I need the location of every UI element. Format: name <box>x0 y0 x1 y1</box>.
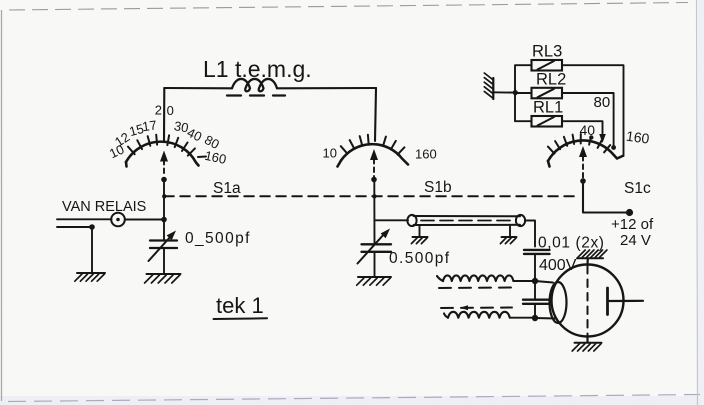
ground coax right <box>502 236 517 238</box>
S1a wiper dashed arrow <box>163 160 165 177</box>
tube dashed membrane <box>587 266 589 335</box>
svg-text:0,01 (2x): 0,01 (2x) <box>538 235 605 252</box>
S1c wiper dashed arrow <box>582 156 584 178</box>
wire chassis to bus <box>493 91 515 93</box>
wire S1a top to rail <box>163 88 165 141</box>
wire coax shield right to ground <box>509 226 511 237</box>
wire tube bottom to ground <box>586 337 588 343</box>
border frame bottom line <box>8 395 700 402</box>
svg-text:160: 160 <box>625 128 651 147</box>
node input ground junction <box>89 224 95 230</box>
S1a wiper node dot <box>161 177 167 183</box>
wire node to C1 <box>163 220 165 241</box>
wire dashed gang line S1a-S1b-S1c <box>164 195 580 197</box>
wire electrode output <box>609 300 643 302</box>
svg-text:S1a: S1a <box>213 180 241 197</box>
S1c 40 tap dot <box>589 135 593 139</box>
wire input top <box>57 218 112 220</box>
svg-text:S1b: S1b <box>424 179 452 196</box>
svg-text:40: 40 <box>580 122 596 138</box>
svg-text:24 V: 24 V <box>620 232 651 249</box>
wire top rail right <box>277 87 376 89</box>
inductor bottom coil <box>444 314 448 318</box>
svg-text:400V: 400V <box>539 257 577 274</box>
switch S1c ticks <box>548 134 610 154</box>
S1c wiper node dot <box>580 178 586 184</box>
svg-text:80: 80 <box>594 94 611 111</box>
svg-text:+12 of: +12 of <box>611 216 654 233</box>
wire node A to tube <box>535 281 553 283</box>
svg-text:2: 2 <box>155 103 162 118</box>
switch S1c arc <box>548 140 623 161</box>
wire C2 to ground <box>374 252 376 276</box>
node relay bus junction <box>513 90 518 95</box>
ground under tube <box>575 342 602 344</box>
wire connector to node <box>125 219 164 221</box>
coax cable body <box>414 215 521 217</box>
svg-text:0_500pf: 0_500pf <box>185 230 251 247</box>
node S1a rail junction <box>162 194 166 198</box>
wire C4 to node B <box>534 304 536 318</box>
border frame left line <box>1 10 3 401</box>
wire S1c wiper to supply <box>583 181 628 213</box>
wire coax to capacitor stack <box>525 221 535 247</box>
wire C1 to ground <box>163 248 165 273</box>
ground under C1 <box>147 273 181 275</box>
wire S1a wiper down <box>163 180 165 220</box>
capacitor C3 0,01 top <box>524 249 550 251</box>
switch S1b arc <box>341 144 408 164</box>
wire input bottom <box>57 226 92 228</box>
coax cable right end <box>516 215 525 226</box>
wire RL3 to 160 tap <box>562 65 624 156</box>
chassis ground above tube <box>577 257 603 259</box>
relay coil RL2 <box>532 88 563 99</box>
svg-text:RL2: RL2 <box>536 71 566 89</box>
wire S1b branch to coax <box>375 219 409 221</box>
S1b wiper node dot <box>371 177 377 183</box>
inductor L1 <box>232 79 277 91</box>
svg-text:VAN RELAIS: VAN RELAIS <box>62 199 146 215</box>
svg-text:160: 160 <box>415 147 437 162</box>
switch S1a ticks <box>128 135 206 157</box>
border frame right line <box>697 0 698 405</box>
svg-text:RL3: RL3 <box>532 43 562 61</box>
inductor top coil <box>437 276 443 281</box>
connector J1 <box>111 213 125 227</box>
coax centerline <box>421 220 514 222</box>
node A <box>532 278 538 284</box>
ground coax left <box>413 236 428 238</box>
inductor L1 core dashed line <box>227 94 285 96</box>
wire S1b wiper down <box>373 180 375 245</box>
wire rail down to S1b <box>375 88 376 141</box>
ground under input <box>77 272 105 274</box>
node main/connector junction <box>161 217 167 223</box>
supply terminal dot <box>626 209 633 216</box>
tek 1 underline <box>214 317 268 320</box>
relay coil RL1 <box>532 116 563 127</box>
svg-text:0.500pf: 0.500pf <box>389 250 451 267</box>
wire down to ground <box>91 227 93 273</box>
wire relay bus <box>515 65 532 121</box>
svg-text:tek 1: tek 1 <box>216 293 264 318</box>
tube envelope circle <box>552 265 624 337</box>
core dashed line bottom <box>441 307 512 310</box>
coax cable left end <box>407 215 416 226</box>
svg-text:10: 10 <box>323 146 337 161</box>
svg-text:S1c: S1c <box>624 180 651 197</box>
node B <box>532 315 538 321</box>
switch S1b ticks <box>341 135 405 155</box>
ground under C2 <box>358 276 391 278</box>
tube electrode bar <box>606 288 609 315</box>
wire top rail left <box>164 87 232 89</box>
wire RL2 to 80 tap <box>562 93 614 147</box>
wire node A to C4 <box>534 281 536 300</box>
svg-text:0: 0 <box>167 103 174 118</box>
relay coil RL3 <box>532 60 563 71</box>
wire tube top to chassis <box>586 259 588 265</box>
border frame top line <box>9 3 688 11</box>
capacitor C2 0-500pf <box>362 243 392 245</box>
wire RL1 to 40 tap <box>562 121 603 138</box>
S1b wiper dashed arrow <box>373 159 375 177</box>
wire C3 to node A <box>534 254 536 281</box>
core dashed line top <box>439 287 512 290</box>
capacitor C4 0,01 bottom <box>523 299 548 301</box>
switch S1a arc <box>126 142 199 166</box>
capacitor C1 0-500pf <box>150 239 177 241</box>
svg-text:L1 t.e.m.g.: L1 t.e.m.g. <box>203 56 312 82</box>
wire coax shield left to ground <box>419 226 421 237</box>
chassis ground at relays <box>492 78 494 99</box>
svg-text:17: 17 <box>141 117 157 134</box>
wire node B to tube <box>535 317 556 320</box>
tube inner lens <box>550 282 567 323</box>
node S1b rail junction <box>372 194 376 198</box>
svg-text:RL1: RL1 <box>533 99 563 117</box>
